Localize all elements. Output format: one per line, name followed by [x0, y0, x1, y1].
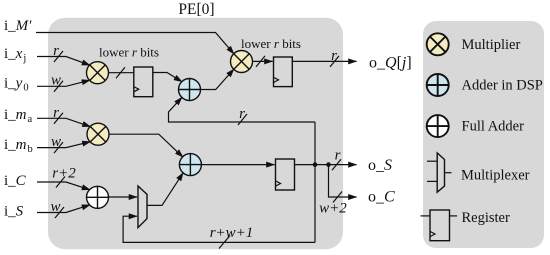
legend box background — [423, 21, 544, 248]
wire M1 to register R1 — [108, 72, 134, 74]
legend multiplier icon — [427, 33, 449, 55]
svg-text:i_S: i_S — [4, 204, 24, 220]
full adder FA — [87, 186, 109, 208]
svg-text:i_C: i_C — [4, 173, 27, 189]
multiplier M2 — [231, 51, 253, 73]
wire i_x to multiplier M1 — [37, 57, 90, 66]
wire i_C to full adder FA — [37, 182, 90, 190]
legend full adder icon — [427, 115, 449, 137]
multiplier M3 — [87, 123, 109, 145]
adder in DSP A2 — [179, 154, 201, 176]
svg-text:Multiplier: Multiplier — [462, 37, 521, 53]
wire FA to multiplexer — [108, 196, 137, 198]
svg-text:i_mb: i_mb — [4, 137, 33, 155]
svg-text:w: w — [50, 199, 60, 215]
wire i_m_b to multiplier M3 — [37, 142, 91, 148]
svg-text:r: r — [239, 106, 245, 122]
register R1 — [134, 67, 153, 97]
wire r+w+1 feedback to multiplexer — [123, 216, 315, 242]
node junction dot on o_S wire (feedback tap) — [313, 162, 318, 167]
multiplexer MX — [138, 186, 147, 228]
svg-text:r: r — [53, 105, 59, 121]
legend multiplexer icon — [427, 153, 452, 192]
wire i_y to multiplier M1 — [37, 80, 90, 86]
wire r feedback to adder A1 — [169, 97, 316, 122]
wire i_m_a to multiplier M3 — [37, 118, 91, 126]
svg-text:i_M′: i_M′ — [4, 18, 32, 34]
bus slash on M1-R1 wire — [116, 67, 125, 78]
svg-text:Adder in DSP: Adder in DSP — [462, 78, 543, 94]
svg-text:r: r — [53, 43, 59, 59]
bus slash on M2-R2 wire — [256, 56, 265, 67]
bus slash r on i_x wire — [54, 51, 63, 62]
bus slash w on i_S wire — [55, 207, 64, 218]
svg-text:lower r bits: lower r bits — [241, 36, 301, 51]
bus slash r+2 on i_C wire — [56, 177, 65, 188]
svg-text:lower r bits: lower r bits — [99, 45, 159, 60]
svg-text:w+2: w+2 — [319, 201, 347, 217]
svg-text:Full Adder: Full Adder — [462, 119, 525, 135]
register R2 — [274, 57, 293, 87]
svg-text:r: r — [335, 148, 341, 164]
wire i_S to full adder FA — [37, 205, 90, 213]
wire R2 to o_Q[j] — [292, 60, 356, 62]
adder in DSP A1 — [179, 79, 201, 101]
svg-text:Multiplexer: Multiplexer — [461, 168, 530, 184]
wire A2 to register R3 — [201, 164, 274, 166]
bus slash r on feedback wire — [238, 114, 247, 125]
svg-text:w: w — [51, 134, 61, 150]
PE block background — [48, 18, 343, 250]
svg-text:r+w+1: r+w+1 — [210, 225, 254, 241]
svg-text:PE[0]: PE[0] — [178, 1, 214, 18]
svg-text:o_Q[j]: o_Q[j] — [369, 55, 412, 72]
node junction dot on o_S wire (o_C tap) — [326, 162, 331, 167]
wire feedback vertical from o_S node — [314, 122, 316, 242]
svg-text:r+2: r+2 — [52, 166, 76, 182]
register R3 — [276, 159, 295, 190]
legend register icon — [421, 210, 458, 241]
bus slash r on o_S wire — [332, 159, 341, 170]
svg-text:i_xj: i_xj — [4, 46, 26, 64]
multiplier M1 — [87, 62, 109, 84]
bus slash w on i_m_b wire — [54, 142, 63, 153]
wire multiplexer to adder A2 — [147, 173, 183, 206]
svg-text:i_ma: i_ma — [4, 107, 33, 125]
wire A1 to multiplier M2 — [200, 69, 234, 90]
bus slash w+2 on o_C wire — [333, 192, 342, 203]
svg-text:o_S: o_S — [368, 157, 392, 174]
wire i_M to multiplier M2 — [36, 33, 234, 55]
svg-text:o_C: o_C — [368, 189, 395, 206]
bus slash r on i_m_a wire — [54, 113, 63, 124]
wire o_C branch — [329, 165, 357, 197]
wire R3 to o_S — [295, 164, 357, 166]
bus slash w on i_y wire — [54, 81, 63, 92]
svg-text:Register: Register — [462, 210, 510, 226]
svg-text:i_y0: i_y0 — [4, 76, 29, 94]
bus slash on r+w+1 wire — [219, 236, 230, 249]
bus slash on o_Q wire — [330, 56, 339, 67]
wire M2 to register R2 — [252, 60, 272, 62]
legend adder in DSP icon — [427, 74, 449, 96]
wire R1 to adder A1 — [153, 73, 182, 82]
svg-text:r: r — [331, 48, 337, 64]
svg-text:w: w — [51, 73, 61, 89]
wire M3 to adder A2 — [109, 134, 183, 157]
